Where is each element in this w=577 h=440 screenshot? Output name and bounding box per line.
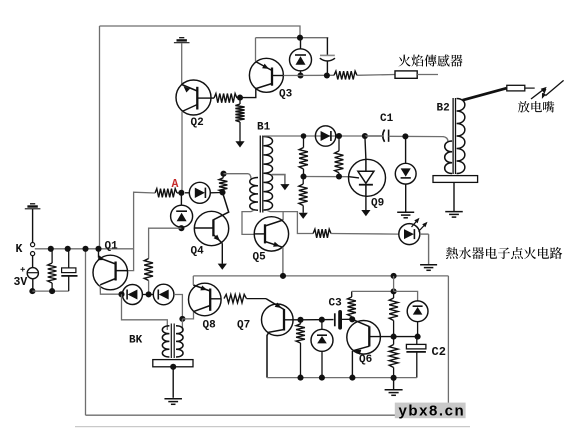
node R11 bottom (49, 288, 55, 294)
node J3 (219, 189, 225, 195)
text 火焰传感器 (398, 55, 462, 67)
svg-text:C1: C1 (380, 113, 394, 125)
wire K to Q1 base column (35, 248, 134, 250)
LED indicator (399, 224, 429, 264)
spark bolt 1 (531, 87, 547, 99)
node J5 (178, 225, 184, 231)
resistor R16 (389, 337, 398, 378)
arrow B1 tap down (280, 184, 289, 190)
resistor R7 (313, 229, 331, 238)
power symbol above Q2 (174, 38, 190, 43)
watermark text ybx8.cn (399, 402, 466, 419)
LED arrow 1 (412, 218, 420, 227)
label Q6 (359, 354, 372, 366)
wire battery to bottom node (32, 279, 34, 291)
wire R12 to Q7 emitter (247, 298, 267, 300)
node J1 Q3 collector junction (237, 95, 243, 101)
svg-text:Q9: Q9 (371, 198, 384, 210)
wire R7 to LED (331, 233, 399, 236)
label node A (172, 178, 179, 191)
wire B1 tap (272, 175, 285, 185)
transistor Q8 (189, 283, 222, 316)
label Q4 (191, 246, 205, 258)
thyristor Q9 (349, 159, 386, 196)
wire Q5 collector drop (282, 212, 284, 220)
wire D1 top stem (300, 38, 302, 49)
svg-text:Q3: Q3 (279, 89, 293, 101)
wire B2 plate to ground (453, 182, 455, 211)
wire D1 bottom stem (300, 71, 302, 76)
wire A to D3 (180, 193, 182, 206)
wire electrode lead (525, 87, 535, 89)
wire emitter rail y276 (193, 275, 448, 277)
svg-text:Q4: Q4 (191, 246, 205, 258)
resistor R1 Q2 base (211, 94, 237, 103)
svg-text:Q8: Q8 (203, 320, 217, 332)
node D8 top (319, 317, 325, 323)
arrow ground below R10 (299, 213, 308, 219)
node D1-Q3 base (297, 72, 303, 78)
label BK (129, 334, 143, 346)
wire V rail y38 (256, 37, 329, 39)
node Q9 anode (362, 133, 368, 139)
wire R14 top rail (352, 290, 394, 292)
transformer B2 primary winding (445, 141, 452, 174)
transformer BK core (171, 324, 174, 359)
resistor R11 (48, 249, 57, 291)
node Q6 base-R15 (391, 334, 397, 340)
resistor R5 to node A (155, 189, 181, 198)
battery BT 3V (21, 256, 39, 279)
node R6 bottom (146, 291, 152, 297)
power symbol above K (25, 204, 41, 209)
svg-text:K: K (16, 243, 23, 256)
node Q1 collector-D6 (118, 291, 124, 297)
diode D5 (395, 136, 416, 211)
resistor R4 (219, 174, 227, 192)
spark bolt 2 (542, 80, 564, 99)
label 3V (14, 276, 28, 289)
wire BK plate to ground (172, 367, 174, 398)
svg-text:Q5: Q5 (253, 252, 267, 264)
transformer B1 secondary winding (264, 137, 273, 211)
wire D6 node to BK primary top (122, 294, 168, 330)
LED arrow 2 (419, 222, 428, 232)
wire R3 to sensor box (357, 74, 395, 77)
capacitor C4 at top (320, 38, 335, 76)
wire Q9 anode stem (365, 136, 366, 159)
node R9 top (336, 133, 342, 139)
wire Q9 cathode stem (365, 196, 367, 210)
svg-text:ybx8.cn: ybx8.cn (399, 402, 466, 419)
wire D3 to J5 (180, 227, 182, 228)
wire C1 right to B2 (389, 136, 448, 141)
node BK plate (170, 364, 176, 370)
svg-text:3V: 3V (14, 276, 28, 289)
diode D9 (407, 301, 428, 337)
wire rail drop to R15 (393, 276, 395, 292)
svg-text:Q7: Q7 (237, 320, 250, 332)
node K-R11 (48, 246, 54, 252)
svg-text:Q6: Q6 (359, 354, 372, 366)
ground oscillator (385, 390, 403, 396)
switch K contacts (30, 243, 34, 256)
svg-text:BK: BK (129, 334, 143, 346)
capacitor C1 (365, 130, 389, 142)
wire B1 primary bottom to Q5 base (242, 210, 254, 234)
label Q8 (203, 320, 217, 332)
resistor R14 (348, 291, 356, 319)
diode D2 (185, 182, 218, 203)
ground below B2 (445, 212, 463, 218)
wire J5 left and down to R6 (149, 228, 182, 258)
transformer B1 core (260, 136, 263, 213)
wire B2 HV lead (463, 88, 507, 100)
label Q1 (105, 241, 119, 253)
node D8 bottom (319, 375, 325, 381)
svg-text:C2: C2 (432, 345, 446, 359)
node K-frame (82, 246, 88, 252)
resistor R3 flame line (334, 71, 357, 79)
diode D4 on rail (315, 126, 335, 146)
wire D9 top hook (394, 291, 418, 300)
label C3 (329, 298, 343, 310)
wire Q8 emitter up (192, 276, 194, 285)
wire Q7 base to C3 (301, 319, 334, 321)
node D5 top (402, 133, 408, 139)
wire Q1 collector down (100, 285, 121, 294)
wire D2 to J3 (218, 191, 223, 193)
node Q6 emitter bottom (349, 375, 355, 381)
wire Q3 emitter up (255, 38, 257, 62)
label C1 (380, 113, 394, 125)
spark electrode box (507, 85, 525, 91)
transistor Q3 (249, 58, 283, 92)
node R8 top (301, 133, 307, 139)
transformer BK bobbin plate (153, 360, 193, 367)
resistor R13 (296, 320, 305, 378)
label Q2 (191, 117, 204, 129)
diode D6 (122, 285, 142, 305)
wire R6 to diode row (148, 281, 150, 295)
text 热水器电子点火电路 (446, 247, 562, 259)
wire oscillator bottom rail (267, 377, 417, 379)
resistor R15 (389, 291, 398, 336)
label Q3 (279, 89, 293, 101)
node K-Q1emitter (95, 246, 101, 252)
wire K stem (32, 209, 34, 242)
ground below D5 (397, 212, 414, 218)
wire Q6 base to D9 (394, 336, 418, 338)
node osc ground (391, 375, 397, 381)
node Q7 base (297, 317, 303, 323)
node R15 top (391, 288, 397, 294)
wire D6-D7 (142, 294, 153, 296)
label K (16, 243, 23, 256)
resistor R10 (299, 177, 308, 213)
transformer B2 bobbin plate (433, 176, 478, 183)
node BK-Q8 collector (179, 316, 185, 322)
wire Q2 emitter to power symbol (181, 43, 183, 85)
arrow ground Q4 emitter (218, 264, 227, 270)
node R8 bottom (300, 173, 306, 179)
wire gate line (304, 176, 350, 178)
wire osc ground stem (393, 378, 395, 389)
ground below BK (164, 399, 182, 405)
node R9 bottom (336, 173, 342, 179)
transformer B1 primary winding (250, 178, 258, 211)
node J2 top of R4 (220, 171, 226, 177)
resistor R12 Q8 base (224, 294, 247, 302)
capacitor C5 (61, 249, 77, 291)
label B2 (437, 103, 450, 115)
wire B1 secondary bottom right (267, 210, 314, 233)
wire bottom rail (86, 414, 449, 416)
wire left frame vertical lower (85, 249, 87, 415)
transformer B2 core (453, 98, 455, 174)
svg-text:C3: C3 (329, 298, 343, 310)
node C4 bottom (324, 72, 330, 78)
transformer B2 secondary winding (457, 99, 465, 174)
resistor R6 (144, 259, 153, 281)
resistor R9 (335, 136, 344, 177)
diode D8 (311, 320, 333, 378)
wire HV rail y136 (264, 135, 383, 137)
node R13 bottom (297, 375, 303, 381)
wire J2 to B1 primary top (224, 174, 251, 179)
label Q9 (371, 198, 384, 210)
wire sensor box right lead (417, 74, 438, 76)
flame sensor box (395, 71, 417, 78)
node K-C5 (65, 246, 71, 252)
capacitor C3 (335, 312, 352, 328)
transformer BK secondary winding (176, 326, 183, 357)
wire Q2 collector down to node A (181, 112, 183, 193)
transformer BK primary winding (162, 326, 169, 357)
wire node to BK secondary top (181, 319, 183, 331)
ground below LED (420, 265, 437, 271)
arrow ground below R2 (235, 141, 244, 147)
wire Q3 base rail (283, 74, 334, 76)
svg-text:Q1: Q1 (105, 241, 119, 253)
wire battery bottom rail (32, 290, 68, 292)
wire R5 left to Q1 base column (116, 192, 155, 270)
label Q5 (253, 252, 267, 264)
arrow ground Q9 cathode (361, 210, 370, 216)
transistor Q4 (194, 192, 228, 263)
diode D7 (153, 284, 174, 305)
wire Q8 collector (182, 312, 193, 319)
label Q7 (237, 320, 250, 332)
wire J1 to Q3 collector (240, 89, 256, 98)
diode D1 (290, 49, 312, 71)
svg-text:B2: B2 (437, 103, 450, 115)
svg-text:Q2: Q2 (191, 117, 204, 129)
transistor Q7 (262, 299, 301, 378)
diode D3 (171, 205, 193, 227)
resistor R2 pulldown at J1 (235, 98, 244, 142)
transistor Q1 (93, 249, 128, 290)
separator line (75, 426, 470, 428)
text 放电嘴 (518, 101, 554, 112)
node Q5 emitter-rail (280, 273, 286, 279)
node A (178, 190, 184, 196)
resistor R8 (299, 136, 308, 177)
label C2 (432, 345, 446, 359)
node battery bottom (29, 288, 35, 294)
transistor Q2 (176, 80, 211, 115)
node rail-D1 (297, 35, 303, 41)
wire right frame vertical (447, 276, 449, 415)
transistor Q6 (347, 319, 394, 377)
svg-text:B1: B1 (257, 122, 271, 134)
wire top rail from left frame to D1 (100, 26, 301, 38)
label B1 (257, 122, 271, 134)
capacitor C2 (406, 337, 426, 378)
watermark box (395, 403, 466, 419)
node rail-R15 (391, 273, 397, 279)
wire left frame vertical upper (99, 26, 101, 249)
wire D7 to BK secondary (174, 295, 183, 319)
node Q6 collector (349, 316, 355, 322)
transistor Q5 (254, 217, 288, 276)
node D9-C2 (415, 334, 421, 340)
